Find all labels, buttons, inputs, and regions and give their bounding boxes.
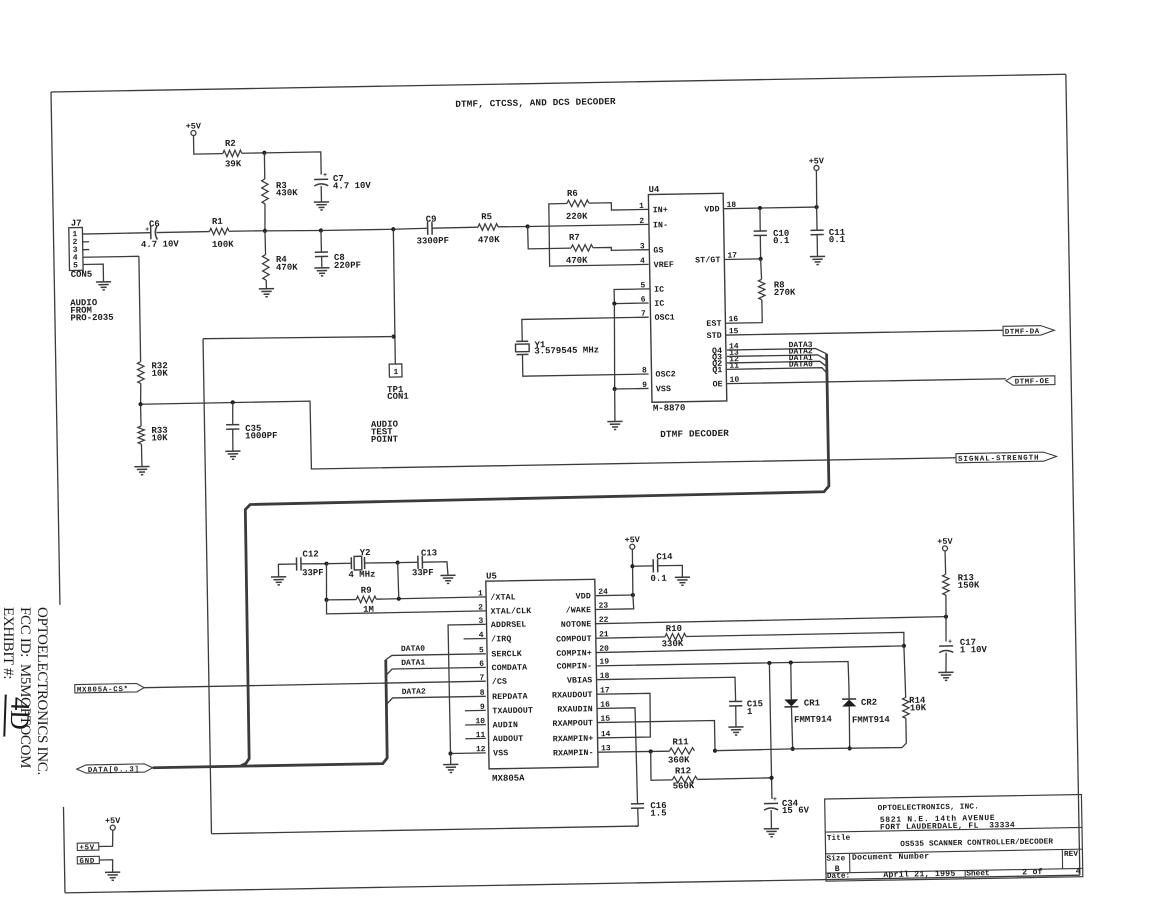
svg-text:VDD: VDD bbox=[704, 205, 719, 214]
title block line above date row bbox=[826, 868, 1083, 873]
wire J7 pin1 to C6 bbox=[82, 233, 150, 234]
svg-text:DATA1: DATA1 bbox=[401, 659, 425, 668]
wire U5 pin24 VDD to +5V bbox=[596, 594, 633, 597]
svg-text:OS535 SCANNER CONTROLLER/DECOD: OS535 SCANNER CONTROLLER/DECODER bbox=[900, 838, 1053, 849]
svg-text:U5: U5 bbox=[486, 571, 497, 581]
svg-text:April 21, 1995: April 21, 1995 bbox=[883, 869, 955, 880]
wire DATA1 tap to U5 pin6 COMDATA bbox=[386, 667, 486, 675]
wire R10 to COMPIN+ node bbox=[686, 632, 904, 649]
wire U5 pin13 RXAMPIN- to R11 bbox=[598, 751, 670, 753]
svg-text:REV: REV bbox=[1064, 851, 1078, 859]
wire ST/GT to R8 bbox=[760, 259, 763, 280]
capacitor C6 4.7 10V (polarized) bbox=[150, 226, 152, 239]
wire U4 pin5 IC bbox=[614, 289, 650, 304]
wire U5 pin15 RXAMPOUT to R11 node bbox=[597, 721, 715, 754]
svg-text:0.1: 0.1 bbox=[829, 235, 846, 245]
power +5V (U4 VDD) bbox=[814, 165, 819, 170]
wire node to U4 pin2 IN- bbox=[528, 224, 649, 226]
wire audio node to C8 node bbox=[265, 230, 321, 232]
wire U5 pin18 VBIAS to C15 bbox=[596, 677, 736, 704]
svg-text:4: 4 bbox=[640, 257, 645, 266]
node TP1 riser bbox=[391, 227, 395, 231]
wire R32 to junction bbox=[139, 384, 142, 405]
resistor R33 10K bbox=[140, 404, 142, 426]
wire Y2 to node bbox=[365, 561, 398, 564]
svg-text:TXAUDOUT: TXAUDOUT bbox=[492, 707, 533, 717]
net label GND box bbox=[77, 856, 99, 864]
svg-text:/IRQ: /IRQ bbox=[491, 634, 511, 644]
svg-text:Title: Title bbox=[827, 835, 851, 843]
svg-text:DATA0: DATA0 bbox=[789, 360, 813, 369]
svg-text:470K: 470K bbox=[566, 256, 588, 266]
wire U4 pin7 OSC1 to Y1 bbox=[522, 317, 649, 341]
power +5V (R13) bbox=[942, 546, 947, 551]
wire node to C13 bbox=[398, 561, 418, 563]
svg-text:2: 2 bbox=[478, 603, 483, 612]
wire C7 to ground bbox=[320, 186, 322, 202]
svg-text:2: 2 bbox=[639, 217, 644, 226]
resistor R3 bbox=[262, 179, 269, 204]
wire R7 to U4 pin3 GS with jog bbox=[593, 247, 649, 251]
wire C14 to ground bbox=[658, 565, 683, 577]
wire J7 pin4 branch down to R32 bbox=[139, 256, 141, 361]
net label +5V box bbox=[77, 843, 99, 851]
title block REV divider bbox=[1061, 849, 1063, 868]
resistor R32 10K bbox=[137, 362, 144, 384]
net label DTMF-OE flag bbox=[1006, 376, 1055, 386]
node R12 branch tap bbox=[649, 749, 653, 753]
svg-text:+5V: +5V bbox=[937, 537, 953, 547]
svg-text:DATA2: DATA2 bbox=[402, 688, 426, 697]
sheet border frame (right edge) bbox=[1066, 74, 1080, 875]
svg-text:1: 1 bbox=[393, 368, 398, 377]
svg-text:+5V: +5V bbox=[186, 121, 202, 131]
bus horizontal run to DATA taps riser bbox=[151, 660, 388, 768]
node ADDRSEL/VSS tie bbox=[448, 751, 452, 755]
svg-text:/XTAL: /XTAL bbox=[490, 592, 516, 602]
svg-text:AUDOUT: AUDOUT bbox=[493, 735, 524, 745]
svg-text:SIGNAL-STRENGTH: SIGNAL-STRENGTH bbox=[958, 455, 1040, 464]
wire U4 pin14 Q4 DATA3 bbox=[727, 348, 827, 355]
svg-text:+5V: +5V bbox=[809, 156, 825, 166]
diode CR1 FMMT914 (cathode down) bbox=[784, 699, 798, 706]
svg-text:+5V: +5V bbox=[105, 816, 121, 826]
resistor R9 1M bbox=[327, 598, 357, 601]
node R9 left junction bbox=[324, 598, 328, 602]
wire C34 to ground bbox=[770, 810, 772, 829]
wire U5 pin12 VSS bbox=[451, 752, 486, 755]
svg-text:CR2: CR2 bbox=[861, 698, 877, 708]
svg-text:DATA[0..3]: DATA[0..3] bbox=[88, 766, 140, 775]
resistor R8 270K bbox=[758, 279, 765, 300]
svg-text:/CS: /CS bbox=[492, 677, 507, 687]
svg-text:SERCLK: SERCLK bbox=[491, 650, 522, 660]
sheet border frame (top edge) bbox=[51, 74, 1066, 92]
node R2/R3/C7 junction bbox=[262, 151, 266, 155]
wire node to C7 branch bbox=[264, 152, 321, 176]
title block date/sheet divider bbox=[964, 871, 966, 878]
ground right of C13 bbox=[440, 574, 455, 576]
capacitor C11 0.1 bbox=[816, 207, 818, 230]
svg-text:MX805A-CS*: MX805A-CS* bbox=[77, 686, 129, 695]
svg-text:4.7 10V: 4.7 10V bbox=[141, 239, 180, 250]
connector J7 CON5 body bbox=[69, 227, 83, 270]
svg-text:C14: C14 bbox=[656, 552, 673, 562]
svg-text:+: + bbox=[948, 638, 952, 645]
svg-text:DTMF DECODER: DTMF DECODER bbox=[660, 428, 729, 440]
svg-text:10K: 10K bbox=[910, 703, 927, 713]
svg-text:IC: IC bbox=[654, 286, 664, 295]
wire VSS tie to ground bbox=[450, 754, 452, 765]
capacitor C14 0.1 bbox=[652, 559, 654, 572]
svg-text:CR1: CR1 bbox=[804, 698, 821, 708]
svg-text:0.1: 0.1 bbox=[773, 236, 790, 246]
title block line below title row bbox=[826, 849, 1083, 854]
svg-text:VREF: VREF bbox=[654, 261, 674, 270]
svg-text:R2: R2 bbox=[225, 139, 236, 149]
wire J7 pin5 to ground bbox=[83, 264, 104, 282]
resistor R6 bbox=[567, 200, 589, 207]
node R13/C17 junction bbox=[944, 615, 948, 619]
svg-text:U4: U4 bbox=[649, 185, 661, 195]
svg-text:OPTOELECTRONICS, INC.: OPTOELECTRONICS, INC. bbox=[878, 803, 980, 813]
node C34 riser tap bbox=[767, 661, 771, 665]
stub U5 pin11 AUDOUT bbox=[465, 737, 485, 739]
wire R2 to node bbox=[242, 152, 265, 154]
wire C6 to R1 bbox=[156, 232, 209, 233]
wire R4 to ground bbox=[265, 280, 267, 289]
wire TP1 riser from audio line bbox=[393, 229, 396, 364]
svg-text:0.1: 0.1 bbox=[650, 574, 667, 584]
wire R33 to ground bbox=[140, 444, 142, 467]
ground below C35 bbox=[225, 450, 240, 452]
svg-text:M-8870: M-8870 bbox=[653, 403, 686, 414]
svg-text:+5V: +5V bbox=[624, 535, 640, 545]
wire R3 to main audio node bbox=[263, 204, 266, 231]
svg-text:3: 3 bbox=[640, 242, 645, 251]
wire R11 node to bottom rail bbox=[715, 749, 793, 751]
capacitor C7 4.7 10V (polarized) bbox=[314, 178, 328, 180]
wire DATA0 tap to U5 pin5 SERCLK bbox=[386, 654, 486, 660]
node R9 right / C13 riser bbox=[397, 597, 401, 601]
capacitor C13 33PF bbox=[417, 556, 419, 569]
svg-text:+: + bbox=[323, 172, 327, 179]
resistor R13 150K bbox=[942, 574, 949, 595]
node C8 tap bbox=[319, 228, 323, 232]
svg-text:R1: R1 bbox=[212, 217, 224, 227]
capacitor C17 1 10V (polarized) bbox=[939, 645, 953, 647]
stub J7 pin2 bbox=[83, 241, 89, 243]
resistor R11 360K bbox=[669, 748, 694, 755]
wire node to C17 bbox=[945, 617, 948, 642]
node CR2 bottom bbox=[848, 746, 852, 750]
wire to TP1 node bbox=[321, 229, 393, 230]
svg-text:ADDRSEL: ADDRSEL bbox=[491, 621, 527, 631]
resistor R7 bbox=[571, 245, 593, 252]
ground right of C14 bbox=[675, 576, 690, 578]
stub U5 pin4 /IRQ bbox=[464, 637, 486, 639]
svg-text:+5V: +5V bbox=[79, 844, 95, 852]
svg-text:R6: R6 bbox=[567, 189, 578, 199]
wire to C9 bbox=[393, 227, 427, 230]
wire IC vertical to VSS bbox=[613, 304, 616, 389]
node ST/GT junction bbox=[758, 257, 762, 261]
crystal Y1 3.579545 MHz bbox=[516, 340, 528, 342]
svg-text:FMMT914: FMMT914 bbox=[852, 715, 891, 726]
svg-text:C13: C13 bbox=[421, 548, 437, 558]
svg-text:R7: R7 bbox=[569, 233, 580, 243]
wire R9 to U5 pin1 /XTAL bbox=[376, 597, 485, 599]
svg-text:COMDATA: COMDATA bbox=[492, 664, 528, 674]
svg-text:1000PF: 1000PF bbox=[245, 431, 278, 442]
title block line below address bbox=[825, 827, 1082, 832]
node TP1 horizontal tap bbox=[391, 334, 395, 338]
svg-text:VDD: VDD bbox=[576, 592, 591, 601]
diode CR2 FMMT914 (cathode up) bbox=[842, 698, 856, 700]
ground left of C12 bbox=[271, 576, 286, 578]
wire R12 branch down bbox=[651, 751, 673, 780]
wire R14 to bottom rail bbox=[902, 718, 907, 747]
svg-text:+: + bbox=[773, 796, 777, 803]
svg-text:2 of: 2 of bbox=[1022, 867, 1043, 877]
node R12/C34 junction bbox=[769, 776, 773, 780]
wire U5 pin20 COMPIN+ bbox=[596, 646, 904, 653]
stub U5 pin10 AUDIN bbox=[465, 724, 486, 726]
svg-text:3.579545 MHz: 3.579545 MHz bbox=[534, 345, 599, 356]
svg-text:470K: 470K bbox=[276, 263, 298, 273]
wire node down to R14 bbox=[904, 646, 906, 698]
wire C15 to ground bbox=[735, 706, 737, 727]
wire U5 pin19 COMPIN- to CR2 bbox=[596, 661, 849, 687]
wire VSS to ground bbox=[613, 389, 616, 422]
resistor R5 bbox=[478, 224, 498, 231]
wire C12/Y2 node to U5 pin2 XTAL/CLK bbox=[326, 597, 486, 614]
wire +5V to R13 bbox=[944, 551, 947, 574]
svg-text:FMMT914: FMMT914 bbox=[794, 715, 833, 726]
wire CR2 riser bbox=[848, 683, 850, 699]
wire +5V riser above VDD bbox=[815, 170, 818, 207]
svg-text:C9: C9 bbox=[426, 215, 437, 225]
svg-text:AUDIN: AUDIN bbox=[493, 721, 519, 730]
svg-text:1: 1 bbox=[639, 202, 644, 211]
test point TP1 CON1 bbox=[389, 364, 402, 377]
svg-text:COMPIN-: COMPIN- bbox=[556, 662, 592, 672]
ground below C17 bbox=[938, 671, 953, 673]
svg-text:15 6V: 15 6V bbox=[782, 805, 810, 815]
wire R5 to IN- node bbox=[498, 225, 528, 228]
node C14 tap bbox=[630, 564, 634, 568]
svg-text:RXAMPIN+: RXAMPIN+ bbox=[553, 735, 594, 745]
svg-text:VSS: VSS bbox=[656, 385, 671, 394]
svg-text:360K: 360K bbox=[668, 755, 690, 765]
svg-text:220PF: 220PF bbox=[334, 261, 361, 271]
svg-text:C6: C6 bbox=[149, 219, 160, 229]
ground below U5 VSS bbox=[443, 763, 458, 765]
ground below U4 VSS bbox=[607, 420, 622, 422]
wire +5V riser (U5) bbox=[632, 549, 633, 595]
svg-text:FORT LAUDERDALE, FL 33334: FORT LAUDERDALE, FL 33334 bbox=[880, 821, 1015, 832]
svg-text:RXAUDIN: RXAUDIN bbox=[557, 705, 593, 715]
node CR1 riser tap bbox=[789, 660, 793, 664]
wire U4 pin18 VDD to +5V node bbox=[724, 207, 817, 209]
wire U4 pin13 Q3 DATA2 bbox=[727, 355, 827, 362]
wire +5V to R2 bbox=[193, 135, 222, 154]
wire node to Y2 bbox=[326, 562, 351, 564]
wire C9 to R5 bbox=[432, 227, 478, 228]
svg-text:EST: EST bbox=[706, 320, 721, 329]
capacitor C8 220PF bbox=[320, 231, 322, 253]
wire U4 pin11 Q1 DATA0 bbox=[727, 368, 827, 375]
wire U5 pin17 RXAUDOUT to pin14 RXAMPIN+ bbox=[596, 693, 651, 738]
wire +5V flag to symbol bbox=[98, 830, 113, 846]
resistor R12 560K bbox=[672, 776, 697, 783]
ground below C34 bbox=[764, 828, 779, 830]
svg-text:Date:: Date: bbox=[827, 873, 851, 881]
svg-text:33PF: 33PF bbox=[412, 568, 434, 578]
capacitor C12 33PF bbox=[295, 557, 297, 570]
ground below C7 bbox=[314, 201, 329, 203]
svg-text:GND: GND bbox=[79, 858, 95, 866]
wire CR1 to bottom rail bbox=[791, 707, 792, 749]
wire R13 to node bbox=[945, 595, 948, 616]
node CR1 bottom bbox=[791, 747, 795, 751]
svg-text:COMPIN+: COMPIN+ bbox=[556, 649, 592, 659]
wire R1 to node bbox=[229, 230, 265, 233]
svg-text:R5: R5 bbox=[481, 212, 492, 222]
capacitor C15 1 bbox=[729, 700, 742, 702]
svg-text:150K: 150K bbox=[958, 580, 980, 590]
svg-text:STD: STD bbox=[707, 332, 722, 341]
bus DATA3..DATA0 main run bbox=[233, 354, 833, 766]
wire C34 riser bbox=[769, 663, 772, 799]
resistor R10 330K bbox=[665, 633, 686, 640]
wire C16 to bottom run bbox=[637, 808, 640, 826]
sheet border frame (left edge lower segment) bbox=[63, 807, 65, 893]
wire U5 pin16 RXAUDIN to C16 bbox=[596, 708, 637, 805]
ground below J7 pin5 bbox=[96, 281, 111, 283]
svg-text:4.7 10V: 4.7 10V bbox=[333, 181, 372, 192]
resistor R1 bbox=[209, 228, 229, 235]
wire TP1 tap to long vertical bbox=[203, 335, 394, 340]
svg-text:560K: 560K bbox=[673, 781, 695, 791]
wire R6 to U4 pin1 IN+ with jog bbox=[589, 202, 649, 210]
svg-text:Y2: Y2 bbox=[360, 548, 371, 558]
wire CR2 to bottom rail bbox=[849, 706, 850, 748]
node IC junction bbox=[612, 301, 616, 305]
svg-text:R11: R11 bbox=[672, 737, 689, 747]
wire R12 to C34 riser bbox=[697, 778, 771, 780]
svg-text:RXAUDOUT: RXAUDOUT bbox=[552, 691, 593, 701]
title block size/document divider bbox=[849, 853, 851, 872]
svg-text:330K: 330K bbox=[662, 639, 684, 649]
svg-text:430K: 430K bbox=[276, 188, 298, 198]
node R11 right junction bbox=[713, 749, 717, 753]
svg-text:RXAMPOUT: RXAMPOUT bbox=[552, 719, 593, 729]
capacitor C34 15 6V (polarized) bbox=[764, 802, 778, 804]
wire J7 pin4 to R32 branch bbox=[83, 255, 139, 258]
ground below R33 bbox=[134, 466, 149, 468]
svg-text:IC: IC bbox=[654, 300, 664, 309]
crystal Y2 4 MHz bbox=[350, 557, 352, 569]
net label DATA[0..3] flag bbox=[77, 764, 153, 774]
capacitor C35 1000PF bbox=[231, 402, 234, 424]
IC U4 M-8870 body bbox=[648, 193, 726, 402]
wire ground to C12 bbox=[278, 564, 296, 577]
svg-text:VSS: VSS bbox=[493, 749, 508, 758]
ground below C15 bbox=[728, 726, 743, 728]
svg-text:COMPOUT: COMPOUT bbox=[556, 635, 592, 645]
IC U5 MX805A body bbox=[486, 579, 598, 769]
svg-text:Sheet: Sheet bbox=[966, 870, 990, 878]
svg-text:R9: R9 bbox=[361, 586, 372, 596]
svg-text:1.5: 1.5 bbox=[650, 808, 666, 818]
wire long vertical run (audio sense) bbox=[203, 339, 212, 834]
wire node down to R3 bbox=[263, 153, 266, 179]
node IN-/R7 tap bbox=[525, 224, 529, 228]
svg-text:GS: GS bbox=[653, 246, 663, 255]
svg-text:PRO-2035: PRO-2035 bbox=[70, 313, 113, 324]
ground below C11 bbox=[810, 255, 825, 257]
svg-text:OE: OE bbox=[712, 380, 722, 389]
ground below R4 bbox=[259, 288, 274, 290]
svg-text:Size: Size bbox=[826, 855, 845, 863]
ground (GND flag) bbox=[105, 871, 120, 873]
FCC exhibit stamp (rotated sidebar) bbox=[0, 607, 50, 775]
wire SIGNAL-STRENGTH run bbox=[141, 390, 956, 472]
svg-text:R12: R12 bbox=[675, 766, 691, 776]
svg-text:MX805A: MX805A bbox=[492, 773, 525, 784]
node Y2/C13 junction bbox=[396, 560, 400, 564]
wire C14 tap bbox=[632, 565, 653, 567]
svg-text:220K: 220K bbox=[566, 212, 588, 222]
svg-text:XTAL/CLK: XTAL/CLK bbox=[491, 606, 532, 617]
wire GND flag to ground bbox=[99, 860, 113, 873]
wire U4 pin15 STD to DTMF-DA bbox=[726, 330, 1003, 335]
wire C11 to ground bbox=[816, 235, 818, 257]
node R10/COMPIN+ junction bbox=[902, 644, 906, 648]
svg-text:1: 1 bbox=[478, 589, 483, 598]
net label MX805A-CS* flag bbox=[75, 683, 144, 693]
power +5V (feeds R2) bbox=[191, 130, 196, 135]
wire Y1 to U4 pin8 OSC2 bbox=[522, 352, 648, 376]
svg-text:33PF: 33PF bbox=[302, 568, 324, 578]
wire MX805A-CS* to U5 pin7 /CS bbox=[144, 681, 486, 687]
wire VREF to R6 riser bbox=[549, 202, 649, 266]
net label SIGNAL-STRENGTH flag bbox=[956, 452, 1057, 463]
capacitor C10 0.1 bbox=[759, 208, 762, 231]
svg-text:39K: 39K bbox=[225, 159, 242, 169]
svg-text:DTMF-DA: DTMF-DA bbox=[1005, 328, 1040, 337]
svg-text:1 10V: 1 10V bbox=[960, 645, 988, 655]
wire U5 pin21 COMPOUT to R10 bbox=[596, 637, 665, 638]
svg-text:POINT: POINT bbox=[371, 434, 399, 444]
wire DATA2 tap to U5 pin8 REPDATA bbox=[386, 696, 485, 704]
net label DTMF-DA flag bbox=[1003, 325, 1054, 335]
resistor R14 10K bbox=[902, 697, 909, 718]
wire C10 to ST/GT bbox=[759, 235, 762, 258]
resistor R4 bbox=[264, 231, 267, 255]
wire U4 pin17 ST/GT bbox=[724, 258, 760, 261]
wire C35 to ground bbox=[232, 429, 235, 451]
wire U4 pin9 VSS bbox=[615, 387, 649, 390]
svg-text:C12: C12 bbox=[302, 549, 318, 559]
svg-text:DATA0: DATA0 bbox=[401, 645, 425, 654]
wire R8 to U4 pin16 EST bbox=[725, 300, 762, 323]
svg-text:CON5: CON5 bbox=[71, 270, 93, 280]
wire U5 pin22 NOTONE to R13 node bbox=[596, 617, 946, 624]
capacitor C16 1.5 bbox=[631, 803, 644, 805]
wire C13 to ground bbox=[422, 562, 448, 576]
